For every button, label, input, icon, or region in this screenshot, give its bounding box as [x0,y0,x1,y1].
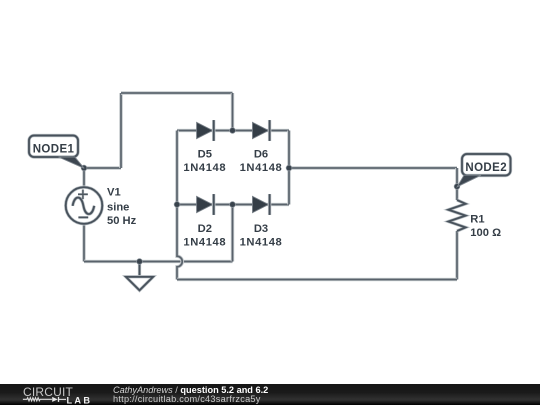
credit text [113,386,268,405]
diode D2 [197,194,214,215]
label D5 value [183,148,226,174]
label V1 value [107,187,137,227]
svg-text:1N4148: 1N4148 [183,236,226,248]
svg-text:1N4148: 1N4148 [240,236,283,248]
wire left rail with hop over bottom wire [177,205,182,280]
wire bottom horizontal V1 to mid rail [84,260,233,264]
diode D5 [197,120,214,141]
node NODE1 flag [29,136,84,169]
wire top-route left vertical [119,93,123,168]
junction left rail dot [174,201,180,207]
svg-text:D2: D2 [198,223,212,235]
ground [126,262,153,291]
svg-text:100 Ω: 100 Ω [470,227,501,239]
label R1 value [470,213,501,239]
voltage source V1 [66,187,103,224]
wire bottom return horizontal [177,278,457,282]
svg-text:D3: D3 [254,223,268,235]
label D3 value [240,223,283,248]
wire NODE2 down to R1 [455,168,459,200]
CircuitLab logo schematic line with LAB [0,384,110,405]
svg-text:1N4148: 1N4148 [183,162,226,174]
wire left rail D5 anode to D2 anode [175,131,179,205]
wire top-route horizontal [121,91,233,95]
svg-text:NODE1: NODE1 [33,143,75,155]
svg-text:D6: D6 [254,148,268,160]
label D6 value [240,148,283,174]
junction ground dot [136,258,142,264]
junction NODE2 dot [454,183,460,189]
node NODE2 flag [457,154,510,187]
diode D6 [253,120,270,141]
junction right rail dot [286,165,292,171]
wire top diode branch [177,129,289,133]
svg-text:1N4148: 1N4148 [240,162,283,174]
label D2 value [183,223,226,248]
svg-text:NODE2: NODE2 [465,162,507,174]
svg-text:D5: D5 [198,148,212,160]
svg-text:LAB: LAB [67,396,93,405]
wire top-route down to D5-D6 junction [231,93,235,131]
wire mid rail up to D2-D3 junction [231,205,235,262]
wire V1 minus terminal down [82,224,86,262]
wire bottom diode branch [177,203,289,207]
svg-text:R1: R1 [470,213,484,225]
wire right rail D6 cathode to D3 cathode [287,131,291,205]
CircuitLab logo wordmark [23,385,73,399]
junction NODE1 dot [81,165,87,171]
svg-text:sine: sine [107,202,129,214]
wire R1 bottom down [455,231,459,280]
svg-text:50 Hz: 50 Hz [107,215,137,227]
diode D3 [253,194,270,215]
resistor R1 [448,200,465,231]
junction D5-D6 dot [229,127,235,133]
junction D2-D3 dot [229,201,235,207]
wire NODE1 to top-route corner [84,166,121,170]
wire V1 plus terminal [82,168,86,188]
svg-text:V1: V1 [107,187,121,199]
wire NODE2 horizontal [289,166,457,170]
